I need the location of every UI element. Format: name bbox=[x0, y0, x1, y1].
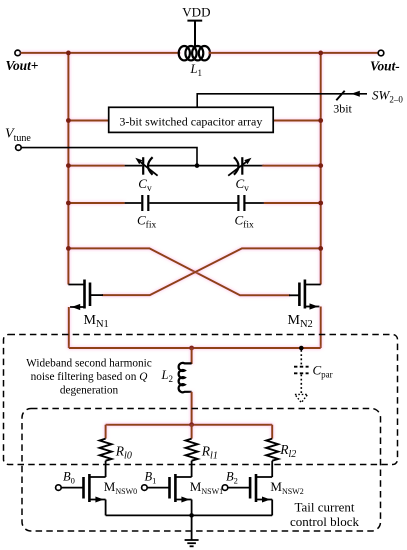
resistor R12 bbox=[266, 439, 278, 461]
wire MN2 source drop bbox=[320, 307, 322, 349]
node junction distribution rail / L2 lead bbox=[189, 422, 194, 427]
resistor R10 bbox=[100, 439, 112, 461]
wire R12 bottom lead bbox=[271, 461, 273, 477]
wire MNSW2 source to rail bbox=[271, 500, 273, 516]
wire R10 bottom lead bbox=[105, 461, 107, 477]
wire Cfix row right (Cfix2 to rail) bbox=[245, 202, 264, 204]
terminal B1 bbox=[142, 485, 148, 491]
resistor R11 bbox=[186, 439, 198, 461]
node junction left rail / varactor row bbox=[66, 163, 71, 168]
ground (parasitic, dotted) bbox=[295, 394, 308, 402]
wire top rail right segment bbox=[209, 52, 379, 54]
inductor L2 bbox=[179, 363, 192, 392]
wire top rail left segment bbox=[21, 52, 181, 54]
node varactor center junction (Vtune node) bbox=[195, 163, 200, 168]
capacitor Cpar (parasitic, dashed) bbox=[294, 350, 309, 393]
wire cross-couple A (left rail to MN2 gate) bbox=[68, 248, 290, 295]
wire resistor R12 top lead bbox=[271, 425, 273, 439]
transistor MNSW2 bbox=[228, 474, 273, 502]
wire varactor row left (rail to Cv1) bbox=[68, 165, 124, 167]
capacitor Cfix2 bbox=[238, 195, 244, 211]
wire Vtune to varactor node bbox=[21, 148, 197, 166]
svg-text:control block: control block bbox=[290, 514, 359, 529]
wire MNSW1 source to rail bbox=[191, 500, 193, 516]
wire box left lead bbox=[68, 120, 108, 122]
varactor Cv2 bbox=[228, 157, 246, 176]
transistor MN2 bbox=[299, 280, 320, 309]
arrow SW direction bbox=[351, 91, 360, 97]
wire tail distribution rail bbox=[106, 424, 273, 426]
svg-text:3-bit switched capacitor array: 3-bit switched capacitor array bbox=[119, 114, 262, 128]
terminal B0 bbox=[56, 485, 62, 491]
wire left rail bbox=[67, 53, 69, 285]
wire box right lead bbox=[273, 120, 321, 122]
wire MN1 source drop bbox=[68, 307, 70, 348]
wire right rail bbox=[320, 53, 322, 285]
svg-text:degeneration: degeneration bbox=[60, 384, 119, 396]
ground bbox=[185, 515, 199, 546]
node junction right rail / Cfix row bbox=[318, 201, 323, 206]
node junction left rail / cross wire bbox=[66, 246, 71, 251]
node junction right rail / box lead bbox=[318, 118, 323, 123]
terminal Vout+ bbox=[15, 50, 21, 56]
wire L2 bottom lead bbox=[191, 392, 193, 425]
transistor MN1 bbox=[68, 280, 90, 309]
wire Cfix row left (rail to Cfix1) bbox=[68, 202, 124, 204]
wire SW bus bbox=[197, 94, 367, 107]
capacitor Cfix1 bbox=[142, 195, 148, 211]
wire tail bottom rail bbox=[106, 514, 273, 516]
VDD power symbol bbox=[187, 21, 202, 47]
terminal Vtune bbox=[16, 145, 22, 151]
svg-text:Vout+: Vout+ bbox=[6, 58, 39, 73]
wire L2 top lead bbox=[191, 348, 193, 364]
svg-text:3bit: 3bit bbox=[333, 102, 352, 116]
wire varactor row right (Cv2 to rail) bbox=[243, 165, 264, 167]
terminal Vout- bbox=[378, 50, 384, 56]
wire Cfix middle bbox=[149, 202, 237, 204]
capacitor array block U1 bbox=[109, 107, 274, 132]
transistor MNSW1 bbox=[147, 474, 192, 502]
wire cross-couple B (right rail to MN1 gate) bbox=[102, 248, 321, 295]
inductor L1 bbox=[179, 46, 210, 60]
wire varactor middle (Cv1 to Cv2) bbox=[149, 165, 238, 167]
node junction right rail / cross wire bbox=[318, 246, 323, 251]
svg-text:Tail current: Tail current bbox=[294, 500, 354, 515]
svg-text:Wideband second harmonic: Wideband second harmonic bbox=[26, 357, 152, 369]
bus slash (3bit) bbox=[336, 91, 344, 100]
svg-text:VDD: VDD bbox=[182, 5, 210, 20]
wire resistor R11 top lead bbox=[191, 425, 193, 439]
node junction right rail / top rail bbox=[318, 51, 323, 56]
node junction right rail / varactor row bbox=[318, 163, 323, 168]
varactor Cv1 bbox=[141, 157, 158, 176]
node junction tail rail / L2 bbox=[189, 346, 194, 351]
transistor MNSW0 bbox=[61, 474, 106, 502]
wire R11 bottom lead bbox=[191, 461, 193, 477]
svg-text:noise filtering based on Q: noise filtering based on Q bbox=[31, 371, 148, 383]
node junction tail rail / Cpar bbox=[299, 346, 304, 351]
noise filtering dashed box bbox=[4, 335, 398, 465]
wire resistor R10 top lead bbox=[105, 425, 107, 439]
svg-text:Vout-: Vout- bbox=[370, 59, 400, 74]
node junction left rail / box lead bbox=[66, 118, 71, 123]
node junction left rail / Cfix row bbox=[66, 201, 71, 206]
wire MNSW0 source to rail bbox=[105, 500, 107, 516]
terminal B2 bbox=[222, 485, 228, 491]
tail current control dashed box bbox=[22, 409, 381, 532]
node junction bottom rail / ground bbox=[189, 513, 194, 518]
node junction left rail / top rail bbox=[66, 51, 71, 56]
wire tail node rail bbox=[69, 347, 321, 349]
